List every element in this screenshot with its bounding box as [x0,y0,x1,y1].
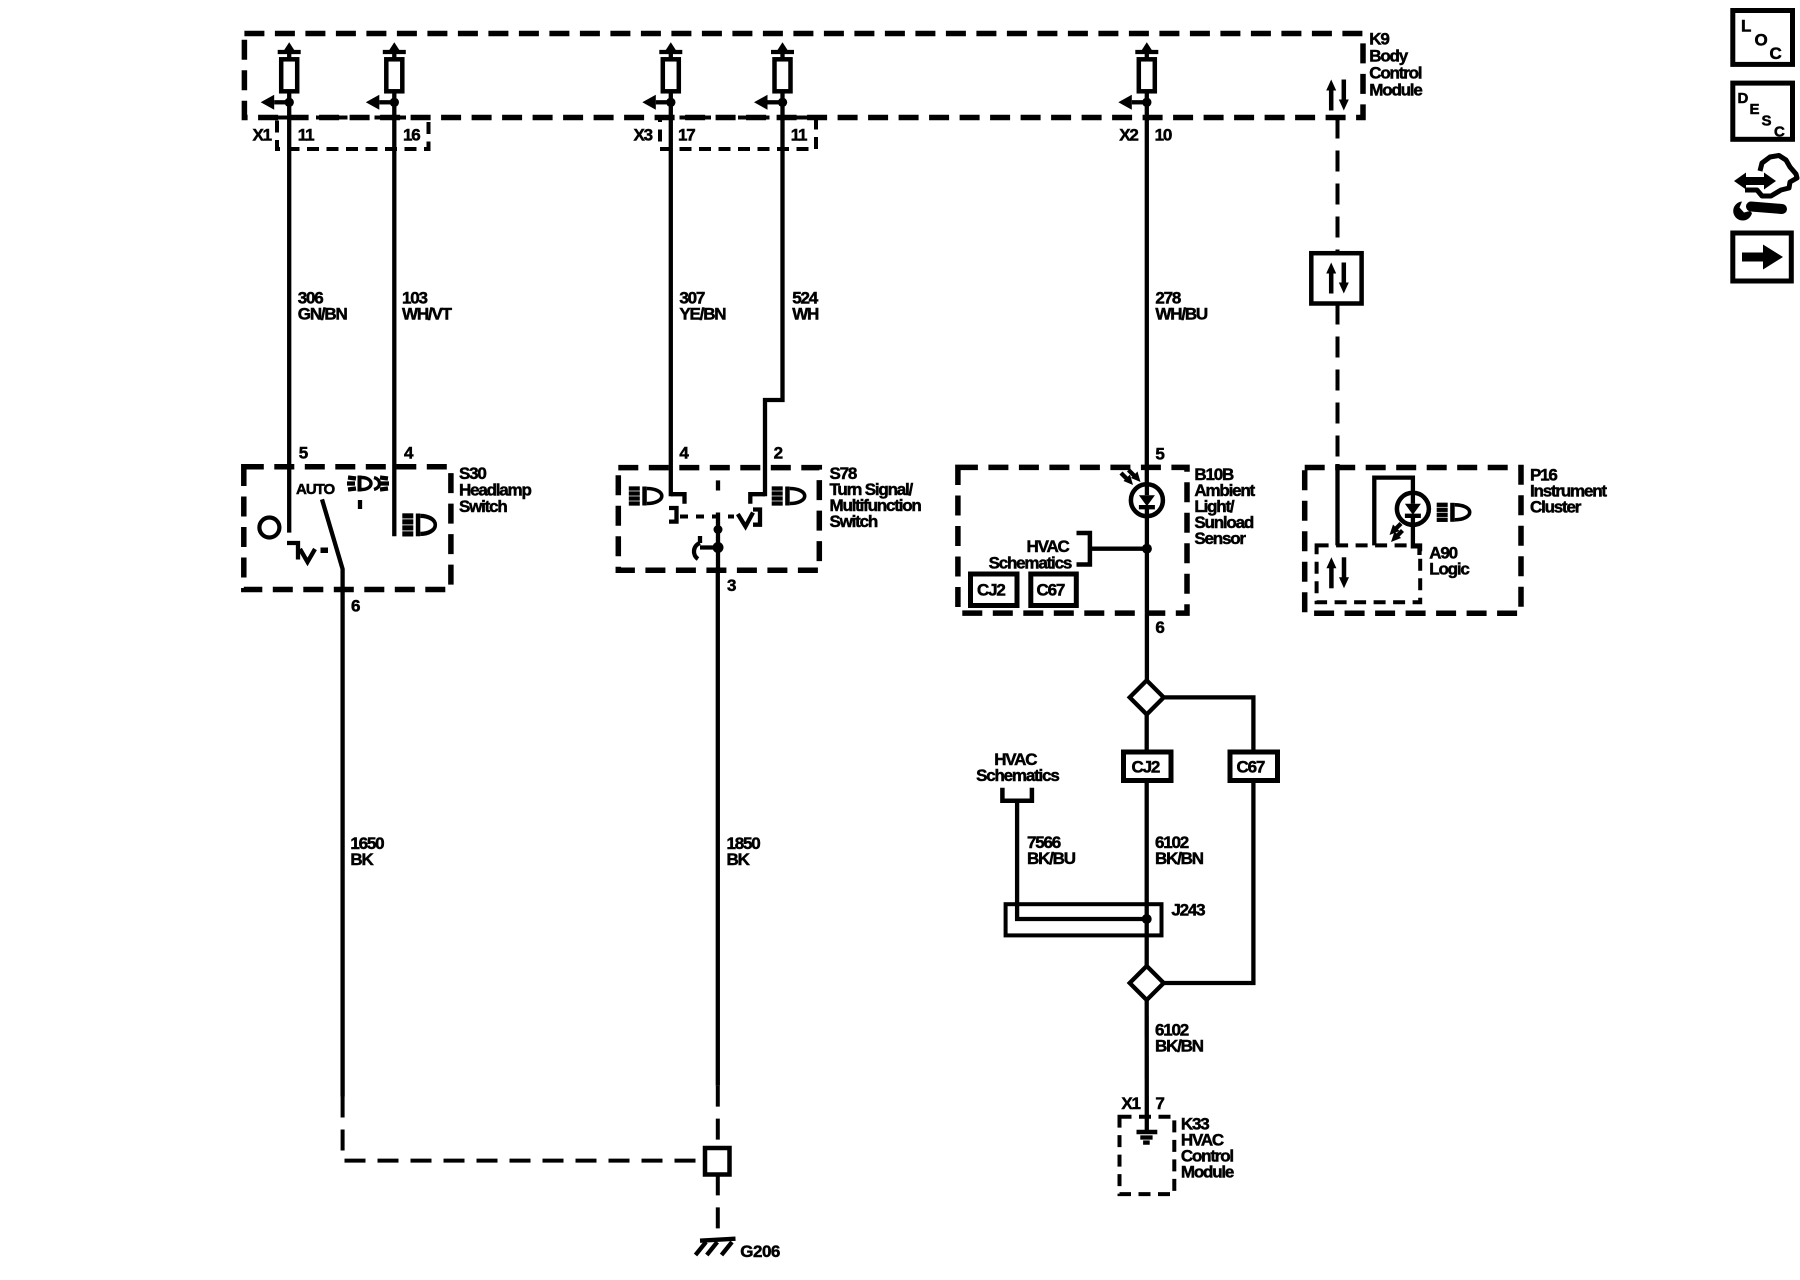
connector pin K9 X3-17 [642,42,682,117]
connector code C67 box (sensor) [1031,574,1077,606]
wire branch right C67 down [1162,780,1253,984]
icon headlamp S78 left [629,487,662,506]
label K33 HVAC Control Module [1181,1115,1234,1182]
svg-text:Schematics: Schematics [989,554,1072,573]
wire LED loop P16 [1374,478,1413,546]
svg-text:GN/BN: GN/BN [298,304,348,323]
svg-text:6: 6 [1155,618,1164,637]
svg-text:7: 7 [1155,1094,1164,1113]
svg-text:4: 4 [404,444,414,463]
svg-text:10: 10 [1155,126,1172,145]
svg-text:Logic: Logic [1429,560,1469,579]
svg-text:X2: X2 [1119,126,1138,145]
wire 1850 BK dashed continuation [716,1086,720,1148]
svg-text:S: S [1762,113,1772,130]
wire 306 GN/BN from K9 X1-11 to S30 pin 5 [287,118,291,533]
svg-text:6: 6 [351,597,360,616]
fixed contact bracket left [669,508,677,522]
symbol serial data arrows inside K9 [1326,80,1349,111]
svg-text:CJ2: CJ2 [1132,758,1160,777]
wire 103 WH/VT from K9 X1-16 to S30 pin 4 [392,118,396,537]
ground symbol inside K33 [1137,1132,1158,1143]
svg-text:X3: X3 [634,126,653,145]
sensor B10B Ambient Light/Sunload Sensor dashed box [958,467,1187,613]
momentary hook symbol [694,536,718,559]
module K33 HVAC Control Module dashed box [1120,1117,1175,1194]
connector code CJ2 box (sensor) [971,574,1018,606]
label S30 Headlamp Switch [459,464,531,516]
svg-text:E: E [1750,101,1760,118]
svg-text:5: 5 [299,444,308,463]
connector X1 number box [277,118,429,150]
svg-text:CJ2: CJ2 [977,581,1005,600]
contact step pin 4 [671,494,685,504]
connector code CJ2 box (branch) [1124,752,1172,781]
svg-text:BK: BK [727,850,751,869]
svg-text:X1: X1 [1121,1094,1140,1113]
svg-text:YE/BN: YE/BN [679,304,726,323]
wire dashed from splice to ground [716,1174,720,1239]
label K9 Body Control Module [1369,30,1422,100]
svg-text:3: 3 [727,576,736,595]
junction dot HVAC tap [1142,544,1152,554]
svg-text:WH/BU: WH/BU [1155,304,1208,323]
wire 524 WH from K9 X3-11 to S78 pin 2 [765,118,783,497]
connector pin K9 X2-10 [1118,42,1158,117]
connector code C67 box (branch) [1230,752,1278,781]
wire inside J243 [1017,904,1147,919]
svg-text:C67: C67 [1237,758,1265,777]
svg-text:Module: Module [1369,81,1422,100]
junction dot post upper [714,525,723,534]
bracket HVAC schematics (branch) [1002,788,1032,801]
switch S30 Headlamp Switch dashed box [244,467,451,590]
svg-text:Switch: Switch [459,497,507,516]
icon DESC box [1733,83,1793,140]
linkage tick below DRL icon [358,500,362,509]
svg-text:Switch: Switch [830,512,878,531]
junction dot J243 [1142,914,1152,924]
moving contact check mark [738,510,760,527]
label S78 Turn Signal/Multifunction Switch [830,464,922,531]
svg-text:Schematics: Schematics [976,766,1059,785]
svg-text:11: 11 [298,126,314,145]
icon headlamp P16 [1437,503,1470,522]
switch S78 Turn Signal/Multifunction Switch dashed box [618,468,819,571]
light rays from LED [1390,524,1403,543]
svg-text:L: L [1741,17,1751,36]
connector pin K9 X3-11 [754,42,794,117]
label P16 Instrument Cluster [1530,466,1607,517]
svg-text:X1: X1 [253,126,272,145]
wire 307 YE/BN from K9 X3-17 to S78 pin 4 [669,118,673,497]
splice diamond upper [1130,680,1164,714]
wire 278 WH/BU from K9 X2-10 to B10B pin 5 [1145,118,1149,485]
svg-text:C: C [1774,124,1785,141]
svg-text:4: 4 [679,444,689,463]
switch blade S30 [322,499,343,589]
svg-text:11: 11 [791,126,807,145]
wire B10B pin5 to pin 6 [1145,516,1149,613]
contact step pin 2 [750,494,765,504]
svg-text:C67: C67 [1037,581,1065,600]
logic A90 dashed box [1317,545,1421,602]
wire 6102 BK/BN lower [1145,999,1149,1130]
svg-text:Sensor: Sensor [1194,529,1246,548]
module K9 Body Control Module dashed box [244,34,1363,118]
icon LOC box [1733,11,1793,65]
cluster P16 Instrument Cluster dashed box [1305,468,1521,614]
wire from B10B pin 6 to splice diamond [1145,613,1149,682]
wire 7566 BK/BU [1015,801,1019,904]
svg-text:2: 2 [774,444,783,463]
svg-text:16: 16 [403,126,420,145]
ground G206 symbol [696,1239,736,1255]
wire 1650 BK from S30 pin 6 [340,590,344,1097]
svg-text:17: 17 [678,126,695,145]
connector pin K9 X1-11 [261,42,301,117]
icon headlamp S30 [402,514,435,537]
serial data box symbol on dashed wire [1311,253,1361,303]
contact OFF position circle [259,518,279,538]
svg-text:WH/VT: WH/VT [402,304,453,323]
wire 1850 BK from S78 pin 3 [716,570,720,1085]
svg-text:BK/BN: BK/BN [1155,1037,1204,1056]
icon DRL lamp with rays [347,476,389,492]
icon headlamp S78 right [772,487,805,506]
linkage dashed line [680,515,734,519]
wire 6102 BK/BN upper [1145,780,1149,968]
switch detent symbol [287,543,328,562]
photodiode symbol B10B [1131,484,1163,516]
bracket HVAC schematics [1077,533,1090,565]
connector X3 number box [660,118,816,150]
svg-text:Cluster: Cluster [1530,498,1582,517]
icon forward arrow box [1733,233,1792,281]
svg-text:C: C [1770,44,1782,63]
wire 1650 BK dashed continuation [343,1097,700,1161]
splice square symbol [705,1148,730,1175]
svg-text:J243: J243 [1171,901,1205,920]
svg-text:G206: G206 [740,1242,780,1261]
serial arrows inside A90 [1326,557,1349,588]
svg-text:AUTO: AUTO [296,481,336,498]
junction dot post lower [713,542,724,553]
icon connector-view (double arrow, connector outline, wrench) [1733,156,1797,221]
svg-text:WH: WH [792,304,819,323]
wire dashed from K9 to P16 [1336,118,1340,254]
svg-text:BK/BU: BK/BU [1027,849,1076,868]
connector pin K9 X1-16 [366,42,406,117]
wire HVAC tap horizontal [1090,547,1147,551]
splice diamond lower [1130,966,1164,1000]
switch post S78 [716,480,720,490]
wire branch right upper [1162,697,1253,753]
svg-text:D: D [1738,90,1749,107]
light rays into photodiode [1121,470,1141,485]
svg-text:BK/BN: BK/BN [1155,849,1204,868]
svg-text:Module: Module [1181,1163,1234,1182]
svg-text:O: O [1755,31,1768,50]
svg-text:5: 5 [1155,445,1164,464]
label B10B Ambient Light/Sunload Sensor [1194,465,1255,548]
wire main to CJ2 [1145,713,1149,753]
wire LED to A90 [1413,525,1420,555]
splice J243 box [1006,904,1162,935]
wire inside P16 to A90 [1335,464,1339,545]
LED symbol P16 [1397,493,1429,525]
svg-text:BK: BK [350,850,374,869]
